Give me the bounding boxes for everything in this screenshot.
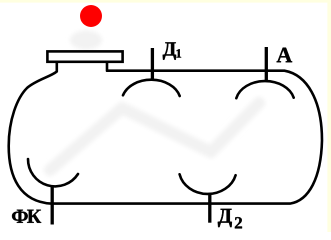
- label D1 subscript 1: [177, 49, 182, 57]
- page-edge yellow band top: [0, 0, 331, 3]
- label A letter А: [277, 48, 293, 63]
- faint shadow under red dot: [70, 31, 102, 50]
- faint electron trajectory zigzag FK-D1-D2-A: [50, 103, 259, 170]
- anode A dome: [236, 81, 293, 98]
- D2 lead: [208, 194, 211, 223]
- dynode D1 dome: [123, 80, 180, 96]
- label D2 subscript 2: [235, 217, 242, 228]
- label FK letter К: [27, 210, 41, 223]
- tube envelope: [9, 63, 322, 204]
- photocathode window plate: [47, 51, 122, 61]
- label FK letter Ф: [12, 210, 28, 223]
- FK lead: [51, 186, 54, 225]
- page-edge yellow band right: [327, 0, 331, 232]
- label D2 letter Д: [218, 209, 232, 227]
- dynode D2 cup: [180, 174, 236, 194]
- label D1 letter Д: [163, 42, 176, 59]
- D1 lead: [151, 48, 154, 80]
- photocathode FK curved electrode: [28, 159, 78, 186]
- A lead: [265, 47, 268, 80]
- light spot (red dot): [80, 5, 102, 27]
